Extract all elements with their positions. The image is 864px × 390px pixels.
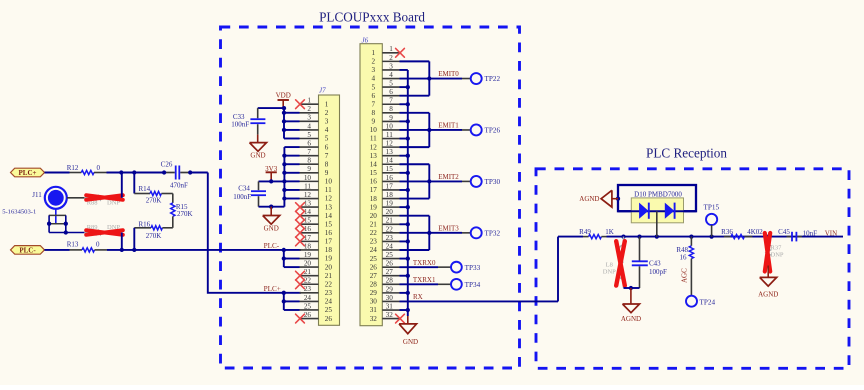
svg-text:26: 26 <box>325 315 333 323</box>
svg-text:28: 28 <box>386 277 394 285</box>
svg-text:30: 30 <box>370 298 378 306</box>
svg-text:21: 21 <box>386 217 394 225</box>
svg-text:16: 16 <box>370 178 378 186</box>
svg-text:C33: C33 <box>233 113 245 121</box>
svg-text:20: 20 <box>304 260 312 268</box>
svg-text:10: 10 <box>325 178 333 186</box>
svg-text:VIN: VIN <box>825 229 837 237</box>
svg-text:12: 12 <box>325 195 333 203</box>
svg-text:R12: R12 <box>67 164 79 172</box>
svg-text:29: 29 <box>370 289 378 297</box>
svg-text:D10 PMBD7000: D10 PMBD7000 <box>634 190 682 198</box>
svg-text:6: 6 <box>325 143 329 151</box>
svg-text:11: 11 <box>386 131 393 139</box>
svg-text:100nF: 100nF <box>231 121 249 129</box>
svg-text:5: 5 <box>372 83 376 91</box>
svg-text:13: 13 <box>386 148 394 156</box>
svg-text:R14: R14 <box>139 185 151 193</box>
svg-text:26: 26 <box>386 260 394 268</box>
svg-text:TP30: TP30 <box>485 178 501 186</box>
svg-text:4: 4 <box>389 71 393 79</box>
svg-text:5: 5 <box>389 79 393 87</box>
svg-text:14: 14 <box>370 160 378 168</box>
svg-text:23: 23 <box>370 238 378 246</box>
svg-text:J7: J7 <box>319 87 326 95</box>
svg-text:12: 12 <box>386 140 394 148</box>
svg-text:24: 24 <box>304 294 312 302</box>
svg-text:R16: R16 <box>139 221 151 229</box>
svg-text:2: 2 <box>372 58 376 66</box>
svg-text:13: 13 <box>304 199 312 207</box>
svg-text:EMIT0: EMIT0 <box>438 70 459 78</box>
svg-text:19: 19 <box>370 203 378 211</box>
svg-text:PLC+: PLC+ <box>19 169 37 177</box>
svg-text:R13: R13 <box>67 240 79 248</box>
svg-text:17: 17 <box>325 238 333 246</box>
svg-text:25: 25 <box>325 306 333 314</box>
svg-text:270K: 270K <box>146 197 162 205</box>
svg-text:6: 6 <box>372 92 376 100</box>
svg-text:9: 9 <box>372 118 376 126</box>
svg-text:PLC-: PLC- <box>19 246 36 254</box>
svg-text:15: 15 <box>370 169 378 177</box>
svg-text:15: 15 <box>325 220 333 228</box>
svg-text:PLCOUPxxx Board: PLCOUPxxx Board <box>319 10 425 25</box>
svg-text:TP22: TP22 <box>485 75 501 83</box>
svg-text:28: 28 <box>370 280 378 288</box>
svg-text:26: 26 <box>304 311 312 319</box>
svg-text:16: 16 <box>386 174 394 182</box>
svg-text:12: 12 <box>370 143 378 151</box>
svg-text:24: 24 <box>325 298 333 306</box>
svg-text:4K02: 4K02 <box>747 228 763 236</box>
svg-text:20: 20 <box>370 212 378 220</box>
svg-text:24: 24 <box>386 242 394 250</box>
svg-text:1: 1 <box>372 49 376 57</box>
svg-text:270K: 270K <box>146 232 162 240</box>
svg-text:8: 8 <box>389 105 393 113</box>
svg-text:22: 22 <box>386 225 394 233</box>
svg-text:3: 3 <box>372 66 376 74</box>
svg-text:32: 32 <box>370 315 378 323</box>
svg-text:J11: J11 <box>32 191 42 199</box>
svg-text:EMIT3: EMIT3 <box>438 225 459 233</box>
svg-text:R49: R49 <box>579 228 591 236</box>
svg-text:C45: C45 <box>778 228 790 236</box>
svg-text:10: 10 <box>386 122 394 130</box>
svg-text:10: 10 <box>370 126 378 134</box>
svg-text:TP32: TP32 <box>485 230 501 238</box>
svg-text:TP26: TP26 <box>485 127 501 135</box>
svg-text:15: 15 <box>386 165 394 173</box>
svg-text:J6: J6 <box>362 36 369 44</box>
svg-text:2: 2 <box>325 109 329 117</box>
svg-text:18: 18 <box>325 246 333 254</box>
svg-text:8: 8 <box>307 157 311 165</box>
svg-text:GND: GND <box>403 338 418 346</box>
svg-text:EMIT2: EMIT2 <box>438 173 459 181</box>
svg-text:1: 1 <box>307 97 311 105</box>
svg-text:DNP: DNP <box>603 269 616 276</box>
svg-text:AGND: AGND <box>621 315 641 323</box>
svg-text:TXRX0: TXRX0 <box>413 259 436 267</box>
svg-text:3: 3 <box>389 62 393 70</box>
svg-text:PLC+: PLC+ <box>264 285 281 293</box>
svg-text:3: 3 <box>307 114 311 122</box>
svg-text:7: 7 <box>307 148 311 156</box>
svg-text:21: 21 <box>370 220 378 228</box>
svg-text:0: 0 <box>96 240 100 248</box>
svg-text:11: 11 <box>304 182 311 190</box>
svg-text:AGC: AGC <box>681 268 689 283</box>
svg-text:4: 4 <box>325 126 329 134</box>
svg-text:TP34: TP34 <box>465 281 481 289</box>
svg-text:AGND: AGND <box>758 291 778 299</box>
svg-text:EMIT1: EMIT1 <box>438 122 459 130</box>
svg-text:C26: C26 <box>161 160 173 168</box>
svg-text:C43: C43 <box>649 260 661 268</box>
svg-text:100pF: 100pF <box>649 268 667 276</box>
svg-text:9: 9 <box>307 165 311 173</box>
svg-text:16: 16 <box>325 229 333 237</box>
svg-text:TXRX1: TXRX1 <box>413 276 436 284</box>
svg-text:18: 18 <box>386 191 394 199</box>
svg-text:19: 19 <box>386 200 394 208</box>
svg-text:100nF: 100nF <box>233 193 251 201</box>
svg-text:C34: C34 <box>238 185 250 193</box>
svg-text:7: 7 <box>325 152 329 160</box>
svg-text:17: 17 <box>370 186 378 194</box>
svg-text:TP24: TP24 <box>700 299 716 307</box>
svg-text:12: 12 <box>304 191 312 199</box>
svg-text:TP15: TP15 <box>704 203 720 211</box>
svg-text:9: 9 <box>325 169 329 177</box>
svg-text:GND: GND <box>264 224 279 232</box>
svg-text:19: 19 <box>325 255 333 263</box>
svg-text:17: 17 <box>386 182 394 190</box>
svg-text:23: 23 <box>386 234 394 242</box>
svg-text:7: 7 <box>389 97 393 105</box>
svg-text:7: 7 <box>372 100 376 108</box>
svg-text:9: 9 <box>389 114 393 122</box>
svg-text:20: 20 <box>325 263 333 271</box>
svg-text:13: 13 <box>370 152 378 160</box>
svg-text:21: 21 <box>304 268 312 276</box>
svg-text:4: 4 <box>372 75 376 83</box>
svg-text:L8: L8 <box>606 261 613 268</box>
svg-text:6: 6 <box>389 88 393 96</box>
svg-text:31: 31 <box>370 306 378 314</box>
svg-text:2: 2 <box>389 54 393 62</box>
svg-text:AGND: AGND <box>579 195 599 203</box>
svg-text:11: 11 <box>325 186 332 194</box>
svg-text:18: 18 <box>370 195 378 203</box>
svg-text:26: 26 <box>370 263 378 271</box>
svg-text:5: 5 <box>307 131 311 139</box>
svg-text:25: 25 <box>386 251 394 259</box>
svg-text:270K: 270K <box>177 210 193 218</box>
svg-text:4: 4 <box>307 122 311 130</box>
svg-text:5: 5 <box>325 135 329 143</box>
svg-text:22: 22 <box>325 280 333 288</box>
svg-text:27: 27 <box>386 268 394 276</box>
svg-text:22: 22 <box>370 229 378 237</box>
svg-text:32: 32 <box>386 311 394 319</box>
svg-text:24: 24 <box>370 246 378 254</box>
svg-text:VDD: VDD <box>276 92 291 100</box>
svg-text:14: 14 <box>386 157 394 165</box>
svg-text:20: 20 <box>386 208 394 216</box>
svg-text:GND: GND <box>250 152 265 160</box>
svg-text:8: 8 <box>325 160 329 168</box>
svg-text:6: 6 <box>307 139 311 147</box>
svg-text:30: 30 <box>386 294 394 302</box>
svg-text:14: 14 <box>325 212 333 220</box>
svg-text:25: 25 <box>304 302 312 310</box>
svg-text:0: 0 <box>96 164 100 172</box>
svg-text:R37: R37 <box>771 244 783 251</box>
svg-text:29: 29 <box>386 285 394 293</box>
svg-text:25: 25 <box>370 255 378 263</box>
svg-text:11: 11 <box>370 135 377 143</box>
svg-text:RX: RX <box>413 293 423 301</box>
svg-text:13: 13 <box>325 203 333 211</box>
svg-text:21: 21 <box>325 272 333 280</box>
svg-text:3: 3 <box>325 118 329 126</box>
svg-text:R36: R36 <box>721 228 733 236</box>
svg-text:470nF: 470nF <box>170 182 188 190</box>
svg-text:PLC Reception: PLC Reception <box>646 146 727 161</box>
svg-text:10nF: 10nF <box>803 229 818 237</box>
svg-text:31: 31 <box>386 302 394 310</box>
svg-text:1K: 1K <box>605 228 614 236</box>
svg-text:1: 1 <box>389 45 393 53</box>
svg-text:23: 23 <box>325 289 333 297</box>
svg-text:PLC-: PLC- <box>264 242 280 250</box>
svg-text:DNP: DNP <box>771 252 784 259</box>
svg-text:2: 2 <box>307 105 311 113</box>
svg-text:5-1634503-1: 5-1634503-1 <box>2 208 36 215</box>
svg-text:27: 27 <box>370 272 378 280</box>
svg-text:8: 8 <box>372 109 376 117</box>
svg-text:16: 16 <box>680 253 688 261</box>
svg-text:1: 1 <box>325 100 329 108</box>
svg-text:TP33: TP33 <box>465 264 481 272</box>
svg-text:10: 10 <box>304 174 312 182</box>
svg-text:19: 19 <box>304 251 312 259</box>
